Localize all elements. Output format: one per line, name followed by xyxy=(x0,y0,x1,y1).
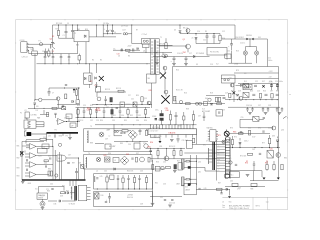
svg-text:CX1: CX1 xyxy=(42,51,45,53)
fan motor circle xyxy=(40,201,45,206)
wire xyxy=(39,186,65,188)
connector bottom loop xyxy=(224,173,229,178)
wire bridge out xyxy=(89,36,116,38)
wire secondary left rail xyxy=(172,67,174,105)
svg-text:R29: R29 xyxy=(90,105,93,107)
wire pin stub xyxy=(217,165,226,167)
capacitor C35 xyxy=(177,138,180,140)
component cluster xyxy=(232,91,235,94)
wire +12V rail xyxy=(234,72,279,74)
svg-text:C35+: C35+ xyxy=(155,110,159,112)
block 12F xyxy=(70,123,76,128)
resistor xyxy=(248,153,253,155)
svg-text:R7: R7 xyxy=(121,49,123,51)
svg-text:ATX-300P4-PFC POWER: ATX-300P4-PFC POWER xyxy=(229,204,250,207)
wire xyxy=(196,43,220,45)
connector rung xyxy=(225,141,230,143)
wire xyxy=(103,33,121,35)
IC U2 supervisor box xyxy=(222,75,236,83)
svg-text:C11: C11 xyxy=(203,40,206,42)
capacitor filter xyxy=(281,107,283,109)
transistor Q7 xyxy=(208,98,211,101)
wire xyxy=(151,137,161,139)
diode D36 xyxy=(59,200,61,202)
svg-text:D25: D25 xyxy=(126,154,129,156)
svg-text:3.3V: 3.3V xyxy=(43,137,46,139)
svg-text:R86: R86 xyxy=(48,169,51,171)
resistor R12 snubber xyxy=(165,43,167,49)
svg-text:R36: R36 xyxy=(144,120,147,122)
component vertical xyxy=(119,107,121,111)
svg-text:R83: R83 xyxy=(17,168,20,170)
svg-text:+5: +5 xyxy=(218,150,220,152)
wire xyxy=(233,83,235,102)
wire xyxy=(253,171,255,181)
bridge rectifier diamond xyxy=(128,130,137,139)
svg-text:R26: R26 xyxy=(263,91,266,93)
wire row bottom xyxy=(173,103,225,105)
box M1 frame xyxy=(84,128,151,130)
IC1 TL494 box xyxy=(148,129,197,135)
svg-text:C29: C29 xyxy=(106,107,109,109)
capacitor C75 xyxy=(51,188,53,190)
resistor R39 xyxy=(141,97,143,102)
wire xyxy=(175,100,177,104)
diode D4b xyxy=(137,48,138,50)
capacitor xyxy=(262,130,264,132)
op-amp U1A xyxy=(30,144,37,150)
wire xyxy=(36,121,44,123)
resistor R36 xyxy=(169,115,171,121)
wire xyxy=(192,143,216,145)
buzzer sub box xyxy=(37,193,47,199)
ground xyxy=(41,206,45,208)
svg-text:D3 FR107: D3 FR107 xyxy=(121,26,128,28)
svg-text:R28: R28 xyxy=(77,105,80,107)
svg-text:C1: C1 xyxy=(63,35,65,37)
svg-text:RL1: RL1 xyxy=(244,81,247,83)
svg-text:C68: C68 xyxy=(78,163,81,165)
svg-text:L4: L4 xyxy=(96,171,98,173)
transformer T1 xyxy=(150,39,159,75)
wire xyxy=(69,133,71,137)
svg-text:+2: +2 xyxy=(226,56,228,58)
IC1 pin stub bottom xyxy=(192,135,194,138)
svg-text:C27: C27 xyxy=(128,95,131,97)
resistor R33 xyxy=(122,130,128,132)
wire xyxy=(78,88,80,100)
svg-text:C42: C42 xyxy=(131,99,134,101)
wire +5V rail xyxy=(221,78,279,80)
wire right bus xyxy=(278,67,280,178)
block xyxy=(204,102,208,106)
svg-text:C58: C58 xyxy=(268,105,271,107)
svg-text:R9: R9 xyxy=(205,31,207,33)
block xyxy=(76,100,79,104)
svg-text:PS ON CTRL: PS ON CTRL xyxy=(210,51,219,53)
svg-text:IC1 TL494: IC1 TL494 xyxy=(152,127,160,129)
svg-text:C44: C44 xyxy=(50,184,53,186)
op-amp block frame xyxy=(21,142,23,181)
svg-text:R88: R88 xyxy=(90,143,93,145)
wire row y148 xyxy=(146,147,185,149)
capacitor C26 xyxy=(252,93,255,95)
transistor circle xyxy=(163,66,167,70)
connector rung xyxy=(225,160,230,162)
svg-text:L3: L3 xyxy=(114,160,116,162)
component near gate xyxy=(49,157,51,159)
wire pin stub xyxy=(217,157,226,159)
ground xyxy=(278,112,282,114)
winding xyxy=(87,131,89,144)
capacitor xyxy=(45,165,47,167)
dark block xyxy=(188,184,190,186)
wire xyxy=(24,151,26,153)
wire xyxy=(65,121,81,123)
svg-text:R36: R36 xyxy=(166,110,169,112)
wire xyxy=(266,39,268,67)
resistor small xyxy=(239,132,244,134)
svg-text:+5: +5 xyxy=(218,146,220,148)
svg-text:P2: P2 xyxy=(20,113,22,115)
IC1 pin stub xyxy=(174,125,176,129)
svg-text:C27: C27 xyxy=(270,91,273,93)
component vertical xyxy=(111,107,113,109)
driver box B xyxy=(186,140,192,148)
wire xyxy=(36,123,44,125)
resistor R58 xyxy=(166,167,171,169)
svg-text:R63: R63 xyxy=(47,191,50,193)
resistor xyxy=(266,161,268,165)
svg-text:R81: R81 xyxy=(17,146,20,148)
bridge block 2 xyxy=(243,92,249,97)
relay block xyxy=(243,84,252,90)
capacitor xyxy=(220,192,222,194)
diode D12 crossed circle xyxy=(243,51,247,55)
transistor circle LED xyxy=(39,98,42,101)
transistor Q9 xyxy=(166,148,168,156)
svg-text:C52 104: C52 104 xyxy=(169,202,175,204)
IC1 pin stub xyxy=(180,125,182,129)
component vertical xyxy=(96,107,98,111)
svg-text:C55: C55 xyxy=(241,117,244,119)
capacitor xyxy=(131,157,133,159)
svg-text:D17: D17 xyxy=(262,81,265,83)
svg-text:C12: C12 xyxy=(222,31,225,33)
capacitor xyxy=(164,199,166,201)
svg-text:C15: C15 xyxy=(268,58,271,60)
capacitor xyxy=(235,163,237,165)
wire xyxy=(221,190,223,192)
resistor R40 xyxy=(192,138,194,143)
svg-text:R34: R34 xyxy=(100,120,103,122)
wire xyxy=(225,186,265,188)
svg-text:12V: 12V xyxy=(36,110,39,112)
connector pin arrow xyxy=(28,123,31,125)
component vertical xyxy=(77,107,79,109)
wire xyxy=(244,55,246,63)
resistor R10 xyxy=(219,34,221,36)
diode D10 xyxy=(246,38,247,40)
IC1 pin stub bottom xyxy=(185,135,187,138)
wire xyxy=(196,135,198,145)
resistor R38 xyxy=(192,115,194,121)
svg-text:R62: R62 xyxy=(62,186,65,188)
svg-text:size: size xyxy=(266,201,269,203)
capacitor C17 xyxy=(185,57,187,59)
bridge diamond 2 xyxy=(120,156,129,165)
svg-text:C25: C25 xyxy=(83,105,86,107)
winding xyxy=(86,157,88,168)
wire xyxy=(226,55,228,60)
svg-text:Q4: Q4 xyxy=(143,51,145,53)
resistor R26 xyxy=(259,94,261,99)
IC1 pin stub xyxy=(156,125,158,129)
wire xyxy=(54,133,56,138)
transistor xyxy=(147,101,151,105)
wire xyxy=(27,49,30,51)
svg-text:Q2: Q2 xyxy=(50,39,53,41)
svg-text:D7 1N4148: D7 1N4148 xyxy=(196,53,204,55)
connector rung xyxy=(225,176,230,178)
capacitor C20 xyxy=(223,97,226,99)
svg-text:PC817: PC817 xyxy=(126,104,131,106)
svg-text:F2: F2 xyxy=(246,161,248,163)
svg-text:D10 FR302: D10 FR302 xyxy=(235,37,244,39)
block dark cluster xyxy=(105,157,111,162)
inductor L2 circles xyxy=(114,131,116,133)
bracket xyxy=(24,131,26,136)
svg-text:D30: D30 xyxy=(96,192,99,194)
wire rail y117 xyxy=(76,117,151,119)
wire xyxy=(52,25,54,42)
svg-text:C73: C73 xyxy=(238,188,241,190)
wire xyxy=(62,133,64,136)
svg-text:R38: R38 xyxy=(186,109,189,111)
transistor circle xyxy=(164,90,168,94)
block X xyxy=(267,150,273,158)
svg-text:R56: R56 xyxy=(156,162,159,164)
svg-text:D26: D26 xyxy=(108,153,111,155)
diode xyxy=(210,103,212,105)
wire xyxy=(244,47,246,51)
wire xyxy=(240,118,253,120)
diode D32 xyxy=(226,188,228,190)
svg-text:F1: F1 xyxy=(39,41,41,43)
wire xyxy=(157,44,173,46)
svg-text:R4: R4 xyxy=(92,60,94,62)
T2 pin stub xyxy=(87,199,91,201)
transistor Q1 main xyxy=(186,44,191,49)
svg-text:+5VSB: +5VSB xyxy=(127,194,133,196)
resistor R53 xyxy=(180,148,182,150)
capacitor EMI xyxy=(52,54,54,57)
capacitor filter xyxy=(276,107,278,109)
svg-text:R84: R84 xyxy=(17,176,20,178)
svg-text:Z1: Z1 xyxy=(192,38,194,40)
svg-text:C3 330u: C3 330u xyxy=(103,23,109,25)
resistor R57 dark xyxy=(174,165,177,170)
wire xyxy=(150,158,217,160)
svg-text:R82: R82 xyxy=(17,158,20,160)
capacitor xyxy=(263,117,265,119)
wire xyxy=(89,84,91,88)
svg-text:D8: D8 xyxy=(196,64,198,66)
svg-text:R35: R35 xyxy=(149,90,152,92)
gate drive winding A xyxy=(182,159,185,169)
ground xyxy=(264,112,268,114)
svg-text:R27: R27 xyxy=(276,91,279,93)
transistor on bus xyxy=(272,126,276,130)
AND gate U5 xyxy=(57,155,66,161)
capacitor xyxy=(171,199,173,201)
ground filled xyxy=(263,178,266,180)
capacitor C3 bulk xyxy=(107,25,109,30)
resistor R1 xyxy=(48,51,50,56)
optocoupler box xyxy=(120,102,125,107)
dark X 1 xyxy=(160,73,166,79)
resistor R45 feedback xyxy=(40,138,46,140)
net arrow xyxy=(283,116,287,118)
dark connector blob xyxy=(27,132,31,136)
capacitor xyxy=(105,96,107,99)
svg-text:C16 47u: C16 47u xyxy=(177,53,183,55)
connector CON1 AC input xyxy=(21,42,27,53)
wire xyxy=(227,134,229,137)
IC1 pin stub bottom xyxy=(154,135,156,138)
wire xyxy=(196,188,230,190)
svg-text:Q15: Q15 xyxy=(270,148,273,150)
capacitor xyxy=(54,112,56,114)
svg-text:D6: D6 xyxy=(162,53,164,55)
IC1 pin stub xyxy=(183,125,185,129)
diode xyxy=(277,137,279,139)
bridge rectifier BD1 xyxy=(74,31,89,42)
block L3 xyxy=(113,158,119,163)
wire pin stub xyxy=(217,151,226,153)
capacitor C42 xyxy=(26,159,28,161)
IC1 pin stub xyxy=(162,125,164,129)
resistor R21 xyxy=(218,97,220,102)
diode block dark xyxy=(62,107,66,110)
capacitor C1 xyxy=(65,31,68,33)
wire xyxy=(59,37,75,39)
optocoupler circles xyxy=(196,102,199,105)
connector rung xyxy=(225,147,230,149)
svg-text:P1: P1 xyxy=(219,135,221,137)
wire rail xyxy=(238,82,279,84)
wire xyxy=(225,174,229,176)
svg-text:C7 2n2: C7 2n2 xyxy=(142,34,148,36)
svg-text:C15: C15 xyxy=(154,53,157,55)
svg-text:C62: C62 xyxy=(228,156,231,158)
wire rail xyxy=(92,104,152,106)
svg-text:C14 1n: C14 1n xyxy=(240,43,245,45)
svg-text:C51: C51 xyxy=(160,197,163,199)
svg-text:D12: D12 xyxy=(227,51,230,53)
capacitor electrolytic xyxy=(109,193,111,197)
svg-text:R14: R14 xyxy=(176,70,179,72)
svg-text:Q16: Q16 xyxy=(281,130,284,132)
svg-text:L2: L2 xyxy=(109,136,111,138)
connector CN2 box xyxy=(24,120,36,128)
ground xyxy=(248,112,252,114)
svg-text:R2 150K: R2 150K xyxy=(56,23,63,25)
zener ZD1 xyxy=(195,34,197,36)
connector rung xyxy=(225,155,230,157)
T2 pin stub xyxy=(87,187,91,189)
wire xyxy=(97,91,126,93)
wire xyxy=(229,62,253,64)
svg-text:5V: 5V xyxy=(230,77,232,79)
wire ground rail xyxy=(225,99,279,101)
svg-text:R67: R67 xyxy=(218,183,221,185)
svg-text:R65: R65 xyxy=(233,131,236,133)
svg-text:T5: T5 xyxy=(266,161,268,163)
capacitor xyxy=(48,88,50,92)
svg-text:PC1: PC1 xyxy=(95,85,98,87)
svg-text:SHT 1: SHT 1 xyxy=(256,206,261,208)
svg-text:C71: C71 xyxy=(158,120,161,122)
svg-text:C37: C37 xyxy=(198,116,201,118)
svg-text:L1: L1 xyxy=(68,60,70,62)
capacitor xyxy=(65,83,67,85)
resistor R48 xyxy=(48,171,50,176)
IC1 pin stub xyxy=(189,125,191,129)
svg-text:C33: C33 xyxy=(112,120,115,122)
wire pin stub xyxy=(217,170,226,172)
capacitor EMI xyxy=(44,54,46,57)
wire xyxy=(249,39,251,47)
resistor R3 xyxy=(57,31,59,36)
svg-text:R6: R6 xyxy=(128,56,130,58)
capacitor C4 bulk xyxy=(112,25,114,30)
svg-text:BD2: BD2 xyxy=(250,91,253,93)
capacitor C41 xyxy=(75,171,78,173)
transistor Q6 xyxy=(239,96,243,100)
extra dark cap xyxy=(155,117,157,119)
wire xyxy=(231,51,233,64)
resistor xyxy=(148,157,150,162)
wire xyxy=(239,119,241,128)
diode on edge xyxy=(114,168,116,170)
bridge small xyxy=(95,193,100,199)
svg-text:C28: C28 xyxy=(96,120,99,122)
capacitor xyxy=(62,104,64,106)
bottom cluster wire xyxy=(113,49,140,51)
wire xyxy=(145,48,147,53)
component vertical xyxy=(83,107,85,111)
wire xyxy=(156,57,158,63)
wire xyxy=(69,180,71,186)
transistor circle M2 xyxy=(140,157,145,162)
svg-text:R51: R51 xyxy=(160,146,163,148)
ferrite bead ellipse xyxy=(162,54,168,57)
connector rung xyxy=(225,163,230,165)
IC1 pin stub bottom xyxy=(165,135,167,138)
svg-text:DBL494: DBL494 xyxy=(169,132,176,134)
capacitor xyxy=(128,175,130,178)
thermistor NTC1 xyxy=(32,51,37,55)
wire xyxy=(187,49,189,52)
svg-text:C9: C9 xyxy=(90,81,92,83)
wire xyxy=(229,133,270,135)
svg-text:C24 1000u: C24 1000u xyxy=(275,81,283,83)
svg-text:R15 4.7K: R15 4.7K xyxy=(176,90,184,92)
resistor xyxy=(47,112,49,116)
op-amp U1B xyxy=(30,153,37,159)
wire xyxy=(184,160,186,162)
